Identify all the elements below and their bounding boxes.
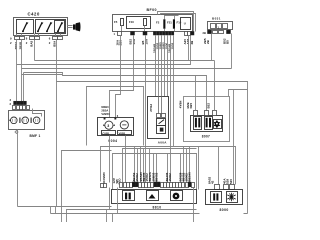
bottom wire 3 bbox=[140, 147, 142, 183]
connector group B under C420 bbox=[30, 37, 40, 40]
BB10 icon 3 bbox=[171, 191, 183, 201]
left pigtail pins bbox=[101, 184, 107, 188]
bottom wire labels bbox=[132, 171, 192, 181]
wire cluster d bbox=[164, 36, 166, 97]
cooling unit pins bbox=[215, 185, 235, 190]
main connector row bbox=[120, 182, 195, 188]
svg-text:U: U bbox=[184, 22, 186, 26]
wire I3 top jog bbox=[229, 90, 248, 97]
wire BF00 pin1 down bbox=[116, 36, 121, 118]
svg-text:C05B: C05B bbox=[102, 131, 109, 135]
bottom wire 8 bbox=[156, 154, 158, 183]
fuse F21 label bbox=[167, 21, 172, 25]
bottom wire 12 bbox=[183, 147, 185, 183]
connector group A wire labels bbox=[14, 41, 23, 50]
fuse F2 label bbox=[156, 21, 160, 25]
B031 pin labels bbox=[203, 31, 230, 44]
svg-text:0B5: 0B5 bbox=[189, 103, 193, 109]
connector group C wire labels bbox=[52, 40, 56, 47]
wire row drop 2 bbox=[117, 188, 119, 214]
body module BB10 box bbox=[112, 190, 197, 204]
wire to lamp pin 3 bbox=[23, 73, 25, 102]
A008 wire labels bbox=[149, 104, 153, 112]
svg-text:520: 520 bbox=[229, 179, 233, 184]
svg-text:B52: B52 bbox=[207, 103, 211, 109]
C420 right sub-box bbox=[36, 20, 66, 34]
lamp ground wire bbox=[18, 130, 112, 207]
harness box I1 bbox=[87, 87, 144, 146]
B031 pins bbox=[208, 30, 231, 33]
bottom wire 14 bbox=[189, 147, 191, 183]
svg-text:F10: F10 bbox=[129, 20, 134, 24]
relay unit C004 box bbox=[98, 118, 134, 136]
svg-text:F14: F14 bbox=[177, 21, 182, 25]
BB10 outer box bbox=[113, 154, 197, 190]
wire BF00 right pin down bbox=[188, 36, 190, 61]
wire from connector A1 bbox=[16, 40, 18, 102]
wire from connector A2 bbox=[21, 40, 23, 102]
svg-text:8007: 8007 bbox=[202, 134, 210, 138]
svg-text:F5: F5 bbox=[114, 20, 118, 24]
svg-text:B5: B5 bbox=[226, 40, 230, 44]
svg-text:42: 42 bbox=[211, 180, 215, 184]
wire from connector C bbox=[56, 40, 58, 82]
BF00 fuse stubs bbox=[122, 26, 175, 32]
8007 top pins bbox=[194, 111, 217, 116]
wire row drop 3 bbox=[193, 188, 195, 223]
wire BF00 pin2 down bbox=[110, 36, 134, 118]
left pigtail labels bbox=[102, 172, 121, 185]
bottom wire 9 bbox=[167, 154, 169, 183]
BF00 inner sub-box bbox=[127, 17, 151, 29]
fuse F14 label bbox=[177, 21, 182, 25]
wire rail R1 bbox=[35, 60, 215, 62]
fuse box BF00 outline bbox=[113, 15, 193, 32]
A008 fuse bbox=[157, 114, 166, 118]
svg-text:B52A0: B52A0 bbox=[188, 172, 192, 182]
svg-text:BMF 1: BMF 1 bbox=[30, 134, 41, 138]
harness box I3 bbox=[184, 97, 230, 142]
C004 wire labels bbox=[101, 105, 110, 116]
BB10 designation bbox=[153, 206, 162, 210]
fuse F2 body bbox=[163, 19, 165, 28]
svg-text:C420: C420 bbox=[28, 12, 40, 17]
C420 left sub-box bbox=[17, 20, 34, 34]
lamp connector row 2 bbox=[13, 106, 30, 110]
lamp internal feed bars bbox=[20, 118, 31, 124]
svg-text:B5A: B5A bbox=[52, 40, 56, 47]
svg-text:2Y4H: 2Y4H bbox=[149, 104, 153, 112]
svg-text:8810: 8810 bbox=[153, 206, 162, 210]
wire C004 out 2 bbox=[125, 136, 127, 183]
C004 resistor symbol bbox=[120, 121, 128, 129]
wire C004 out 1 bbox=[109, 136, 111, 183]
svg-text:F2: F2 bbox=[156, 21, 160, 25]
switch S3 bbox=[46, 22, 52, 32]
bottom wire 11 bbox=[180, 154, 182, 183]
BF00 internal bus wire bbox=[165, 16, 179, 20]
wire rail R3 bbox=[22, 68, 232, 70]
wire cluster c bbox=[161, 36, 163, 114]
B031 inner terminals bbox=[211, 24, 228, 30]
wire cluster f bbox=[170, 36, 172, 183]
svg-text:8B052: 8B052 bbox=[155, 172, 159, 181]
C004 motor symbol bbox=[103, 121, 115, 129]
8007 contactor 2 bbox=[205, 117, 213, 130]
harness box O1 bbox=[57, 82, 248, 214]
C420 pin stubs bbox=[17, 34, 61, 37]
control unit A008 box bbox=[148, 97, 169, 139]
fuse box BF00 label bbox=[147, 8, 157, 12]
svg-text:BA5: BA5 bbox=[29, 40, 33, 46]
bottom wire 13 bbox=[186, 149, 188, 183]
wire cluster g bbox=[173, 36, 175, 147]
lamp L3 bbox=[33, 117, 40, 124]
wire rail R4 bbox=[24, 73, 207, 111]
battery junction B031 box bbox=[208, 22, 233, 30]
wire rail R5 bbox=[22, 74, 63, 76]
stalk control lever icon bbox=[68, 22, 81, 31]
svg-text:2B5A: 2B5A bbox=[101, 108, 108, 112]
svg-text:BCV2M0: BCV2M0 bbox=[102, 172, 106, 185]
C004 designation bbox=[108, 139, 117, 143]
bottom next-section box 3 bbox=[51, 207, 248, 223]
battery junction B031 label bbox=[212, 17, 221, 21]
switch S4 bbox=[57, 22, 63, 32]
svg-text:15002: 15002 bbox=[168, 173, 172, 182]
svg-text:3: 3 bbox=[107, 124, 109, 128]
svg-text:V05B: V05B bbox=[119, 131, 126, 135]
BF00 pin 2 wire label bbox=[129, 38, 136, 44]
8000 icon 1 bbox=[211, 192, 222, 203]
8007 pump icon bbox=[214, 120, 222, 129]
BF00 right sub-box U bbox=[181, 18, 191, 30]
BB10 icon 2 bbox=[147, 191, 159, 201]
switch S4 inner box bbox=[55, 21, 65, 33]
BF00 pin 3 wire label bbox=[141, 38, 148, 44]
bottom wire 1 bbox=[134, 147, 136, 183]
fuse F5 bbox=[121, 19, 124, 26]
wire row drop 1 bbox=[109, 188, 111, 210]
wire cluster b bbox=[158, 36, 160, 114]
BF00 right pin wire labels bbox=[183, 39, 194, 45]
svg-text:M2B0: M2B0 bbox=[101, 105, 109, 109]
BF00 pin 1 bbox=[118, 32, 122, 36]
BB10 icon 1 bbox=[123, 191, 135, 201]
lamp L1 bbox=[9, 117, 17, 124]
switch module C420 label bbox=[28, 12, 40, 17]
lamp connector labels bbox=[10, 98, 12, 106]
A008 internal wires bbox=[159, 97, 162, 114]
svg-text:V2B50: V2B50 bbox=[101, 112, 110, 116]
fuse F21 body bbox=[173, 19, 175, 28]
B031 right pin wire bbox=[231, 34, 233, 69]
lamp internal wire bbox=[33, 109, 42, 117]
8000 designation bbox=[220, 208, 229, 212]
cooling unit feed wires bbox=[199, 147, 219, 190]
BF00 pin cluster bbox=[153, 32, 173, 36]
8007 wire labels bbox=[179, 101, 211, 109]
svg-text:2B: 2B bbox=[203, 31, 206, 35]
BF00 cluster wire labels bbox=[152, 42, 174, 53]
8007 contactor 1 bbox=[194, 117, 202, 130]
junction diamond bbox=[15, 131, 18, 134]
8000 fan icon bbox=[227, 192, 238, 203]
relay box 8007 bbox=[191, 116, 223, 132]
svg-text:B031: B031 bbox=[212, 17, 221, 21]
BMF label bbox=[30, 134, 41, 138]
B031 left pin wire bbox=[211, 34, 213, 61]
fuse F5 label bbox=[114, 20, 118, 24]
connector group B pin labels bbox=[26, 37, 28, 46]
BF00 right pins bbox=[185, 32, 195, 36]
bottom wire 4 bbox=[143, 149, 145, 183]
BF00 over-box wire loop bbox=[158, 12, 196, 32]
C004 bottom label plates bbox=[102, 131, 132, 136]
BF00 pin 1 wire label bbox=[114, 32, 123, 46]
cooling unit 8000 box bbox=[206, 190, 243, 205]
svg-text:4Y9H: 4Y9H bbox=[179, 101, 183, 109]
connector group A under C420 bbox=[15, 37, 25, 40]
lamp L2 bbox=[22, 117, 29, 124]
fuse F10 bbox=[144, 19, 147, 26]
8007 designation bbox=[202, 134, 210, 138]
connector group C pin labels bbox=[49, 37, 51, 46]
wire from connector B bbox=[34, 40, 36, 61]
wire BF00 pin3 down bbox=[145, 36, 147, 183]
A008 designation bbox=[158, 140, 167, 144]
bottom next-section box 1 bbox=[67, 210, 197, 223]
switch S2 bbox=[37, 22, 43, 32]
connector group A pin labels bbox=[10, 37, 12, 46]
svg-text:15A: 15A bbox=[144, 38, 148, 44]
svg-text:A00A: A00A bbox=[158, 140, 167, 144]
A008 switch cell bbox=[157, 119, 166, 126]
wire rail RB1 bbox=[101, 147, 236, 185]
bottom wire 2 bbox=[137, 149, 139, 183]
BF00 pin 2 bbox=[131, 32, 135, 36]
wire cluster a bbox=[155, 36, 157, 97]
lamp module BMF box bbox=[9, 111, 45, 130]
connector group C under C420 bbox=[53, 37, 63, 40]
lamp connector row 1 bbox=[14, 101, 27, 104]
cooling unit wire labels bbox=[208, 176, 234, 184]
8007 feed wire bbox=[196, 61, 215, 111]
wire rail R2 bbox=[17, 36, 191, 65]
svg-text:F21: F21 bbox=[167, 21, 172, 25]
connector group B wire labels bbox=[29, 40, 33, 46]
BF00 pin 3 bbox=[143, 32, 147, 36]
bottom wire 6 bbox=[149, 149, 151, 183]
svg-text:8000: 8000 bbox=[220, 208, 229, 212]
bottom wire 7 bbox=[153, 154, 155, 183]
svg-text:2B5A: 2B5A bbox=[14, 41, 18, 50]
harness box J1 bbox=[62, 151, 112, 223]
svg-text:BF00: BF00 bbox=[147, 8, 157, 12]
C004 top pin bbox=[104, 114, 119, 120]
fuse F10 label bbox=[129, 20, 134, 24]
bottom next-section box 2 bbox=[106, 210, 108, 223]
wire rail RB2 bbox=[123, 149, 197, 183]
wire right feed to fan unit bbox=[233, 90, 235, 185]
wire cluster e bbox=[167, 36, 169, 97]
switch module C420 outer box bbox=[14, 18, 68, 36]
A008 lower cell bbox=[157, 126, 166, 134]
switch S1 bbox=[22, 22, 28, 32]
